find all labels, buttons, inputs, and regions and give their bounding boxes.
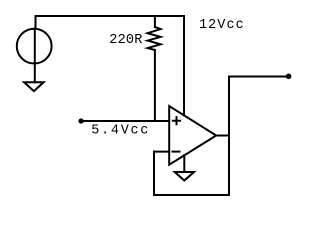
op-amp U1 minus sign [173,151,180,153]
wire feedback to inverting input [154,151,169,153]
wire feedback left vertical [153,152,155,195]
source V1 circle [17,29,52,64]
wire negative supply pin [183,155,185,172]
wire op-amp output [216,135,229,137]
wire source top lead [35,16,37,29]
op-amp U1 triangle [169,106,216,165]
wire to output terminal [229,76,287,78]
wire top rail [36,15,185,17]
svg-text:220R: 220R [109,33,142,48]
node dot 5.4Vcc [78,118,83,123]
ground GND2 under op-amp [175,172,194,181]
resistor R1 bottom lead [154,50,156,121]
svg-text:12Vcc: 12Vcc [199,18,245,33]
resistor R1 body [148,27,161,50]
wire positive supply pin [183,16,185,115]
wire output net vertical [228,77,230,196]
wire source to ground [34,64,36,83]
wire feedback bottom [154,194,229,196]
ground GND1 [24,82,43,91]
source V1 internal bar [34,29,36,64]
wire noninverting input [81,120,169,122]
terminal dot output [286,74,292,80]
svg-text:5.4Vcc: 5.4Vcc [91,124,150,139]
op-amp U1 plus sign [173,117,180,124]
resistor R1 top lead [154,16,156,27]
